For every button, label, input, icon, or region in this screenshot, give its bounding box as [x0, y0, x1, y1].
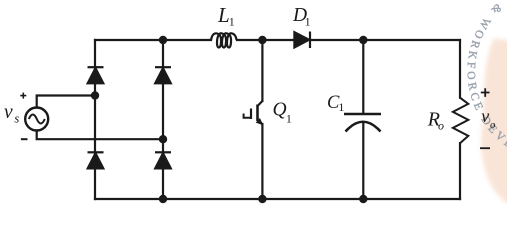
svg-text:1: 1 — [286, 112, 292, 126]
svg-text:o: o — [490, 119, 496, 131]
svg-text:o: o — [438, 119, 444, 133]
svg-text:1: 1 — [305, 14, 311, 28]
svg-text:v: v — [4, 102, 13, 123]
svg-text:Q: Q — [273, 100, 287, 121]
svg-text:s: s — [14, 111, 19, 125]
svg-text:1: 1 — [229, 15, 235, 29]
svg-text:v: v — [481, 106, 489, 126]
svg-text:1: 1 — [338, 100, 344, 114]
